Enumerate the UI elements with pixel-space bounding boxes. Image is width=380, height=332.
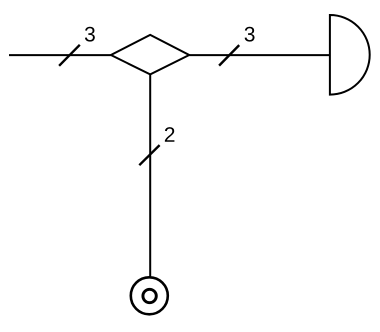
wire down bus segment bbox=[149, 74, 151, 277]
bus width label 2 bbox=[165, 127, 175, 142]
connector terminal outer circle bbox=[131, 277, 168, 314]
connector terminal inner circle bbox=[143, 289, 156, 302]
wire left bus segment bbox=[9, 54, 111, 56]
bus width slash left bbox=[59, 45, 80, 66]
bus width label 3 (left) bbox=[85, 27, 95, 42]
bus width slash right bbox=[219, 45, 239, 66]
bus width label 3 (right) bbox=[245, 27, 255, 42]
node junction diamond bbox=[111, 35, 189, 75]
bus width slash bottom bbox=[139, 145, 159, 165]
wire right bus segment bbox=[189, 54, 330, 56]
receiver U1 (half-disc component) bbox=[330, 15, 370, 95]
